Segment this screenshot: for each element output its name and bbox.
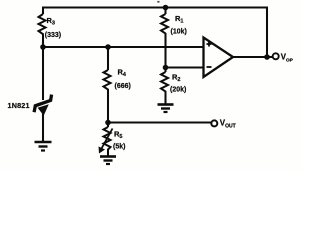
ground under R5	[100, 157, 116, 165]
terminal VOP (open circle)	[273, 53, 279, 59]
wire R1 top stub	[164, 8, 166, 15]
svg-text:1N821: 1N821	[8, 101, 30, 110]
speck artifact	[157, 1, 159, 3]
wire left column lower (zener anode to ground)	[42, 113, 44, 141]
svg-text:(10k): (10k)	[171, 29, 187, 36]
resistor R4	[104, 70, 111, 90]
zener diode D1 1N821	[34, 96, 51, 115]
resistor R1	[161, 14, 168, 35]
wire R1 bottom to node B	[164, 35, 166, 73]
resistor R3	[39, 14, 46, 36]
terminal VOUT (open circle)	[211, 120, 217, 126]
wire R4 bottom segment to node C	[107, 90, 109, 127]
node junction output/feedback	[264, 54, 270, 60]
node C junction (R4/R5/Vout)	[105, 120, 111, 126]
node B junction (R1/R2/inverting input)	[163, 65, 169, 71]
svg-text:(20k): (20k)	[170, 87, 186, 94]
wire top feedback rail (output node to R3/R1 tops)	[43, 8, 267, 58]
potentiometer R5 (adjustable, arrow through body)	[99, 127, 113, 154]
resistor R2	[161, 72, 168, 94]
ground under R2	[158, 105, 174, 113]
wire op-amp output	[233, 56, 272, 58]
wire inverting input (node B to op-amp -)	[166, 66, 204, 68]
op-amp U1 inverting input - mark	[207, 66, 212, 68]
svg-text:(5k): (5k)	[113, 144, 125, 151]
node A junction (R3 bottom / + rail)	[40, 44, 46, 50]
ground under zener diode	[35, 142, 52, 151]
op-amp U1	[204, 38, 234, 78]
svg-text:(333): (333)	[45, 32, 61, 39]
op-amp U1 noninverting input + mark	[207, 42, 212, 47]
svg-text:(666): (666)	[115, 83, 131, 90]
wire noninverting input rail (node A to op-amp +)	[43, 46, 204, 48]
node junction R4 top on + rail	[105, 44, 111, 50]
node junction R1 top on feedback rail	[163, 5, 169, 11]
wire Vout tap (node C to terminal)	[108, 121, 211, 123]
wire R4 top segment	[107, 47, 109, 70]
wire R2 bottom to ground	[164, 94, 166, 104]
wire left column upper (node A to zener cathode)	[42, 36, 44, 100]
wire R5 bottom to ground	[107, 151, 109, 156]
